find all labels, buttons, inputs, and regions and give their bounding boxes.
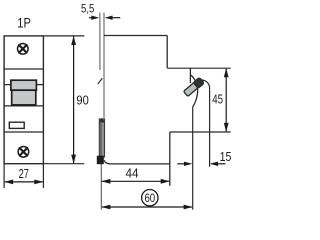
toggle housing bulge [190, 75, 197, 107]
terminal screw top [18, 44, 29, 55]
plate break slash [98, 78, 103, 84]
svg-text:44: 44 [125, 166, 138, 181]
label window [9, 122, 24, 128]
dimension 90 text [76, 92, 88, 107]
dimension 15 right arrow [210, 162, 226, 166]
svg-text:60: 60 [144, 191, 155, 205]
dimension 44 text [125, 166, 138, 181]
dimension 15 left arrow [177, 162, 192, 166]
svg-text:15: 15 [220, 149, 232, 164]
side view top step [166, 36, 168, 69]
side view lower shoulder / 45 extension bottom [170, 131, 231, 133]
din clip block [97, 156, 104, 165]
dimension 27 line [4, 180, 43, 185]
side view upper front face [189, 68, 191, 83]
dimension 27 extension right [42, 164, 44, 188]
toggle handle body [12, 90, 36, 105]
toggle handle cap [11, 80, 37, 90]
dimension 45 line [224, 68, 229, 132]
lever tip leader / 15 extension [202, 80, 210, 167]
front view recess line top [4, 68, 43, 70]
front view lower panel line [4, 131, 43, 133]
svg-text:27: 27 [19, 166, 29, 181]
dimension 15 text [220, 149, 232, 164]
dimension 90 extension top [44, 35, 84, 37]
front view recess line mid [4, 84, 43, 86]
svg-text:5,5: 5,5 [81, 1, 95, 15]
side view lower front face / 60 extension [192, 107, 194, 210]
side view bottom edge [104, 160, 170, 164]
dimension 90 extension bottom [44, 163, 84, 165]
dimension 27 text [19, 166, 29, 181]
svg-text:45: 45 [212, 92, 223, 107]
dimension 90 line [71, 36, 76, 164]
terminal screw bottom [18, 147, 29, 158]
svg-text:1P: 1P [17, 16, 31, 31]
side view lower front step / 44 extension [169, 132, 171, 186]
side view body top edge [104, 35, 167, 37]
dimension 5,5 right arrow [105, 16, 121, 20]
side view mounting plate right line [103, 13, 105, 119]
svg-text:90: 90 [76, 92, 88, 107]
label 1P [17, 16, 31, 31]
dimension 60 line [101, 205, 192, 210]
dimension 5,5 text [81, 1, 95, 15]
extension below clip [100, 164, 102, 210]
din rail bar [99, 118, 105, 157]
front view outline [4, 36, 43, 164]
front view recess line bottom [4, 105, 43, 107]
dimension 45 text [212, 92, 223, 107]
side view shoulder line / 45 extension top [167, 67, 231, 69]
toggle lever [183, 77, 204, 97]
dimension 44 line [101, 179, 170, 184]
side view mounting plate left line [99, 13, 101, 71]
dimension 27 extension left [3, 164, 5, 188]
dimension 60 circled text [142, 190, 158, 206]
dimension 5,5 left arrow [89, 16, 99, 20]
